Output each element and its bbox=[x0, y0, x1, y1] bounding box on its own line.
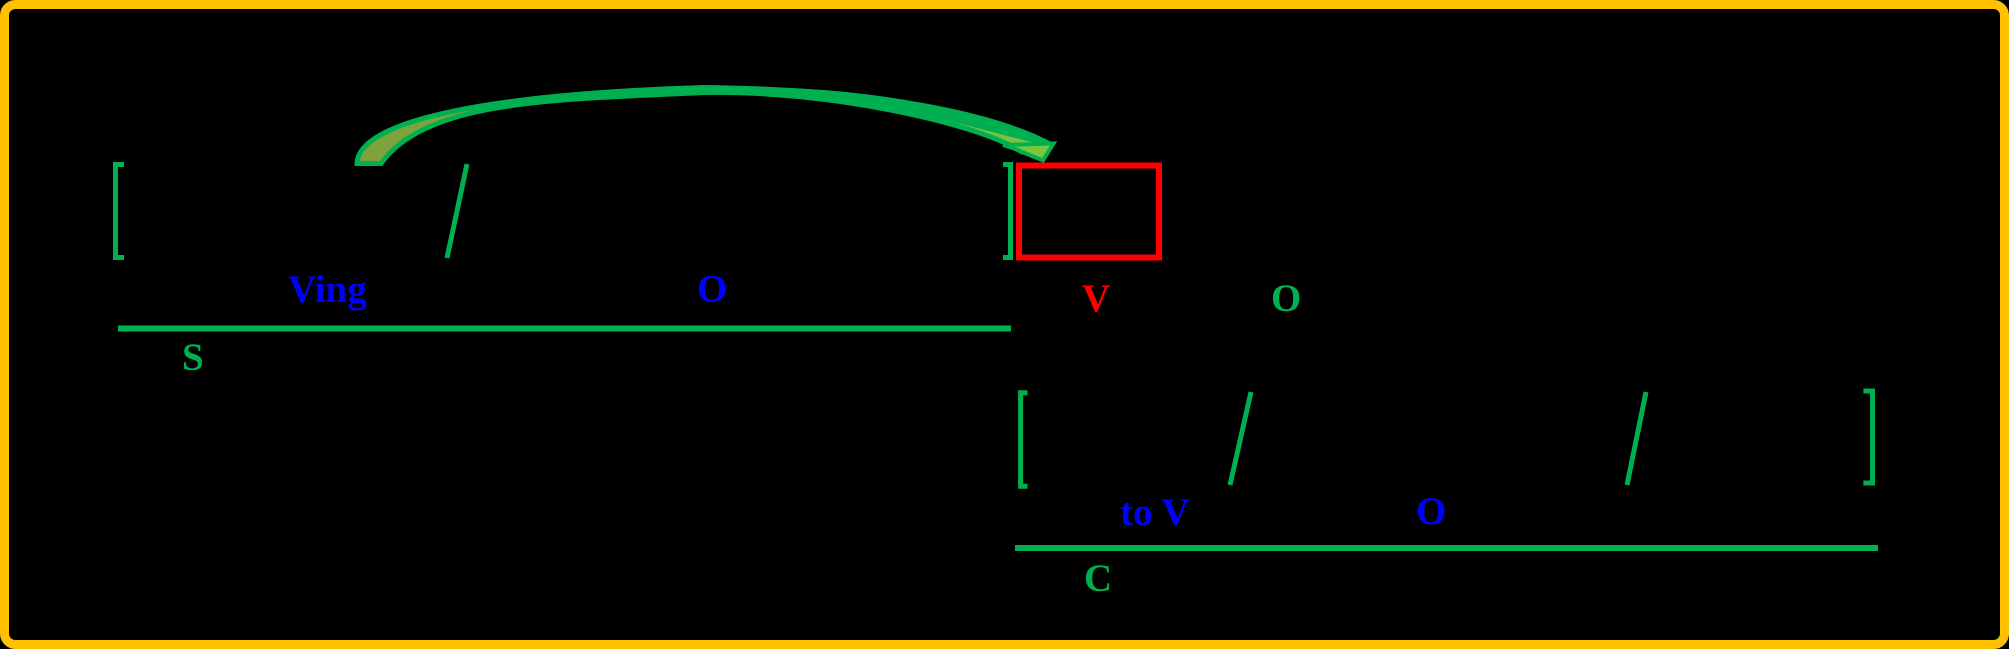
svg-text:Ving: Ving bbox=[288, 268, 367, 311]
svg-text:S: S bbox=[182, 336, 204, 379]
svg-text:O: O bbox=[1271, 277, 1301, 320]
svg-text:C: C bbox=[1084, 557, 1112, 600]
svg-text:O: O bbox=[697, 268, 727, 311]
svg-text:V: V bbox=[1082, 277, 1110, 320]
svg-text:O: O bbox=[1416, 490, 1446, 533]
svg-text:to V: to V bbox=[1120, 491, 1190, 534]
